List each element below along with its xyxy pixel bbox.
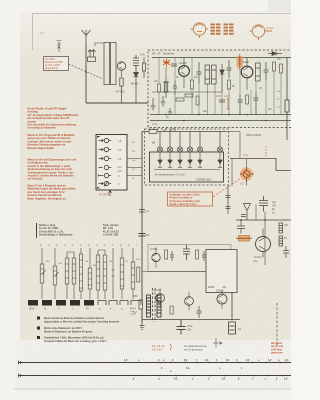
potentiometer P8 bbox=[120, 248, 124, 299]
harness wire lower bbox=[18, 375, 291, 377]
plug labels right multi bbox=[130, 308, 137, 316]
transistor T8 bbox=[217, 294, 227, 304]
dashed service line SV1 bbox=[276, 303, 278, 345]
dial lamp dashed enclosure bbox=[145, 129, 229, 185]
wire BU1 to bus 1 bbox=[127, 158, 142, 160]
antenna ANT1 bbox=[82, 30, 91, 45]
potentiometer P2 chain bbox=[53, 248, 58, 299]
bracket LV1 bbox=[170, 344, 171, 350]
pinout table TAB2 bbox=[224, 24, 234, 35]
junction dot A bbox=[85, 71, 87, 73]
capacitor C18 bbox=[197, 306, 202, 318]
BU1 pin labels bbox=[117, 140, 122, 186]
F1 element bbox=[236, 237, 252, 239]
transistor T7 bbox=[185, 297, 194, 306]
red measurement text M1 bbox=[216, 94, 230, 98]
wire AM line bbox=[230, 159, 291, 171]
bandfilter L1 bbox=[104, 43, 110, 85]
coil L3 bbox=[163, 78, 169, 98]
wire box mid rail bbox=[152, 91, 222, 93]
wire D1 to rail bbox=[135, 80, 137, 103]
plug PL1 bbox=[28, 300, 38, 306]
T2 leads bbox=[181, 58, 185, 89]
wire bus to rail bbox=[141, 309, 143, 320]
capacitor C6 bbox=[264, 62, 269, 80]
plug PL3 bbox=[56, 300, 66, 306]
capacitor C16 bbox=[202, 251, 206, 261]
harness wire upper bbox=[18, 362, 291, 364]
capacitor C20 bbox=[171, 64, 177, 66]
diode D1 bbox=[134, 70, 139, 80]
T5 leads bbox=[153, 247, 157, 267]
potentiometer P3 pair bbox=[65, 252, 76, 299]
label R16 bbox=[134, 296, 139, 314]
transistor T5 bbox=[152, 253, 160, 261]
electrolytic C10 bbox=[259, 196, 268, 212]
T8 leads bbox=[219, 290, 224, 309]
wire BU1 to bus 3 bbox=[127, 175, 142, 177]
label right column values bbox=[277, 91, 281, 109]
tape socket BU1 (AT 5040) bbox=[96, 135, 127, 191]
harness labels above bbox=[124, 359, 289, 362]
capacitor C22 on bus bbox=[139, 210, 145, 213]
scan shadow top right bbox=[268, 0, 291, 12]
wire det col1 bbox=[255, 204, 257, 220]
label box values bbox=[154, 59, 282, 119]
resistor R3 bbox=[158, 84, 161, 92]
resistor R14 bbox=[165, 250, 168, 259]
transformer TR1 core (dashed) bbox=[153, 288, 156, 322]
lamp LA2 bbox=[167, 132, 172, 153]
electrolytic C15 bbox=[183, 245, 190, 260]
harness tick marks bbox=[136, 362, 282, 377]
junction dot B bbox=[240, 219, 242, 221]
T4 leads bbox=[259, 229, 265, 258]
transistor T4 bbox=[256, 237, 271, 252]
transistor T1 bbox=[117, 62, 125, 70]
resistor R6 bbox=[273, 62, 276, 71]
wire antenna down-lead bbox=[85, 45, 87, 103]
electrolytic C17 bbox=[177, 320, 186, 335]
lamp LA1 bbox=[157, 132, 162, 153]
lamp LA5 bbox=[197, 132, 202, 153]
capacitor C19 bbox=[219, 100, 225, 102]
bandfilter L5 bbox=[212, 65, 217, 84]
capacitor C2 (electrolytic stack) bbox=[133, 55, 139, 70]
red corner note RC1 bbox=[271, 342, 284, 355]
resistor R12 (striped) bbox=[279, 223, 283, 233]
bottom rail wire 2 bbox=[150, 120, 291, 122]
wire blob drop bbox=[246, 159, 248, 187]
lamp LA3 bbox=[177, 132, 182, 153]
lamp return wire bbox=[154, 169, 220, 171]
bandfilter L6 bbox=[256, 63, 261, 81]
T3 leads bbox=[244, 58, 249, 91]
wire chain W7 bbox=[112, 248, 115, 299]
plug PL4 bbox=[70, 300, 80, 306]
junction dot C bbox=[264, 219, 266, 221]
potentiometer P1 chain bbox=[40, 248, 45, 299]
wire bottom rail left bbox=[86, 102, 150, 104]
ratio detector triangle Z1 bbox=[244, 204, 251, 221]
resistor R15 bbox=[196, 250, 199, 259]
resistor R13 (striped) bbox=[279, 236, 283, 246]
wire det rail bbox=[236, 219, 291, 221]
footnote 3 text bbox=[44, 337, 107, 343]
wire BU1 bottom lead bbox=[109, 190, 112, 196]
ground GND3 bbox=[161, 96, 166, 106]
trimmer orange dashed mark bbox=[265, 146, 267, 158]
footnote 1 text bbox=[44, 317, 119, 323]
wire drop bbox=[231, 159, 233, 187]
ground GND4 bbox=[140, 320, 145, 330]
lamp LA4 bbox=[187, 132, 192, 153]
scan noise overlay bbox=[0, 0, 1, 1]
control scale tick labels bbox=[40, 244, 137, 247]
capacitor C3 bbox=[173, 80, 177, 95]
speaker jack J1 bbox=[229, 293, 236, 335]
BU1 pin 4 symbol bbox=[99, 165, 112, 169]
wire box exit right bbox=[226, 131, 240, 133]
transistor T6 bbox=[156, 294, 165, 303]
antenna ANT2 (ferrite) bbox=[57, 41, 62, 53]
IF module dashed enclosure bbox=[148, 50, 310, 128]
service note paragraph 1 (red) bbox=[28, 107, 79, 130]
label meas cond bbox=[184, 345, 207, 352]
footnote 1 bullet bbox=[37, 317, 40, 320]
BU1 pin 6 symbol bbox=[99, 181, 112, 186]
capacitor C7 bbox=[254, 92, 259, 115]
leader wire orange dashed bbox=[213, 178, 241, 197]
label C10 values bbox=[272, 202, 277, 215]
harness labels between bbox=[161, 367, 243, 373]
leader wire (dashed) bbox=[69, 64, 104, 79]
label C17 bbox=[187, 325, 193, 332]
capacitor C4 bbox=[197, 62, 202, 84]
socket SK2 bbox=[109, 301, 117, 306]
capacitor C13 on bus bbox=[139, 234, 146, 237]
capacitor C12 bbox=[283, 246, 289, 258]
label column beside BU1 bbox=[132, 142, 136, 180]
socket SK1 bbox=[98, 301, 106, 306]
diode row DR1 bbox=[158, 152, 222, 167]
arrow level A2 bbox=[213, 339, 222, 348]
main bus wire (vertical) bbox=[141, 132, 143, 323]
footnote 3 bullet bbox=[37, 336, 40, 339]
wire amp rail mid bbox=[142, 271, 206, 273]
potentiometer P4 tall bbox=[79, 248, 82, 299]
junction dots on rails bbox=[165, 114, 267, 122]
ground GND2 bbox=[168, 108, 173, 114]
resistor R5 bbox=[228, 80, 231, 89]
bandfilter L2 bbox=[111, 43, 117, 85]
red level note LV1 bbox=[152, 345, 165, 352]
capacitor C14 bbox=[170, 251, 174, 261]
capacitor C1 (input coupling pair) bbox=[88, 50, 96, 62]
capacitor C9 bbox=[241, 215, 246, 217]
ground GND1 bbox=[151, 98, 156, 110]
harness labels below bbox=[133, 378, 288, 381]
service note paragraph 3 (red) bbox=[28, 158, 77, 181]
oscillator star X1 bbox=[163, 59, 170, 67]
lamp assembly box bbox=[150, 152, 224, 182]
capacitor C5 bbox=[227, 60, 232, 78]
wire lamp drop bbox=[239, 132, 241, 159]
page frame top border bbox=[33, 14, 292, 51]
socket SK4 bbox=[131, 301, 141, 306]
resistor R10 bbox=[196, 96, 199, 105]
harness left terminal upper bbox=[19, 361, 21, 365]
resistor R11 on feed bbox=[149, 130, 157, 134]
transistor pinout view P1 bbox=[191, 23, 209, 38]
highlighted trimmer X2 (orange halo) bbox=[240, 168, 253, 181]
wire det col2 bbox=[264, 212, 266, 266]
service note paragraph 2 (red) bbox=[28, 133, 76, 150]
service note paragraph 4 (red) bbox=[28, 184, 77, 201]
resistor R18 bbox=[246, 95, 249, 104]
resistor R7 bbox=[280, 64, 283, 73]
wire T1 emitter bbox=[121, 86, 123, 103]
resistor R19 bbox=[185, 94, 193, 97]
value labels column bbox=[46, 259, 141, 267]
T6 leads bbox=[157, 289, 161, 308]
label output block bbox=[208, 287, 227, 289]
note block N2 bbox=[103, 224, 119, 237]
BU1 corner pins bbox=[97, 136, 101, 189]
diode D3 bbox=[268, 51, 282, 55]
wire filter top bbox=[95, 43, 104, 46]
BU1 pin 2 symbol bbox=[99, 147, 112, 151]
red warning box W1 bbox=[168, 192, 213, 206]
BU1 pin 5 symbol bbox=[99, 173, 112, 177]
fuse orange F1 bbox=[239, 236, 250, 242]
BU1 pin 1 symbol bbox=[99, 138, 112, 142]
top rail wire bbox=[152, 57, 291, 59]
output block box bbox=[206, 250, 237, 293]
note block N1 bbox=[36, 223, 38, 238]
resistor R2 bbox=[142, 57, 145, 78]
switch S1 bbox=[163, 128, 175, 132]
capacitor C11 bbox=[237, 220, 245, 234]
highlighted coil X4 (orange) bbox=[237, 56, 244, 68]
bottom rail wire 1 bbox=[150, 114, 291, 116]
footnote 2 text bbox=[44, 327, 93, 333]
wire BU1 to bus 2 bbox=[127, 167, 142, 169]
transistor pinout view P2 bbox=[250, 25, 273, 40]
BU1 pin 3 symbol bbox=[99, 156, 112, 160]
socket SK3 bbox=[120, 301, 128, 306]
resistor R9 bbox=[176, 98, 184, 101]
potentiometer P6 pair bbox=[96, 250, 107, 299]
wire right column bbox=[286, 58, 288, 141]
wire box verticals bbox=[159, 58, 281, 115]
resistor R8 bbox=[285, 100, 289, 112]
resistor R17 bbox=[170, 306, 173, 314]
resistor R1 bbox=[120, 78, 123, 86]
red bracket M2 bbox=[227, 99, 230, 109]
capacitor stack C21 bbox=[226, 186, 231, 214]
transistor T2 bbox=[179, 66, 190, 77]
diode D2 bbox=[220, 64, 224, 92]
annotation box (Bereichsumschaltung note) bbox=[44, 57, 69, 71]
wire X1 stem bbox=[165, 67, 167, 78]
footnote 2 bullet bbox=[37, 327, 40, 330]
transistor T3 bbox=[241, 66, 253, 78]
TR1 primary bbox=[147, 295, 151, 317]
pinout table TAB1 bbox=[211, 24, 221, 35]
plug PL5 bbox=[84, 300, 94, 306]
T7 leads bbox=[186, 292, 190, 311]
resistor R4 bbox=[191, 80, 194, 89]
wire amp bottom rail bbox=[142, 319, 240, 321]
resistor R16 bbox=[139, 300, 142, 309]
lamp feed wire bbox=[142, 131, 226, 133]
page bottom edge bbox=[14, 388, 291, 390]
potentiometer P9 bbox=[131, 248, 140, 299]
lamp LA6 bbox=[217, 132, 222, 153]
plug labels row bbox=[29, 308, 123, 312]
capacitor C8 bbox=[238, 94, 243, 115]
TR1 secondary bbox=[157, 295, 161, 317]
label values VL1 bbox=[253, 225, 289, 263]
potentiometer P5 chain bbox=[88, 248, 92, 299]
harness left terminal lower bbox=[19, 374, 21, 378]
bandfilter L4 bbox=[205, 65, 210, 84]
plug PL2 bbox=[42, 300, 52, 306]
preamp frame bbox=[148, 245, 231, 272]
